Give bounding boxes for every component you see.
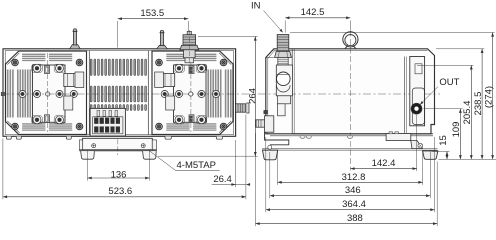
- svg-text:388: 388: [347, 213, 363, 224]
- svg-text:523.6: 523.6: [108, 186, 132, 197]
- svg-text:238.5: 238.5: [473, 92, 484, 116]
- svg-text:136: 136: [111, 169, 127, 180]
- svg-text:IN: IN: [251, 1, 261, 12]
- svg-text:264: 264: [247, 88, 258, 104]
- svg-text:142.4: 142.4: [372, 158, 396, 169]
- svg-text:346: 346: [345, 185, 361, 196]
- svg-text:142.5: 142.5: [301, 7, 325, 18]
- svg-text:26.4: 26.4: [213, 174, 232, 185]
- svg-text:15: 15: [438, 135, 449, 146]
- svg-text:(274): (274): [483, 86, 494, 108]
- svg-text:153.5: 153.5: [140, 8, 164, 19]
- svg-text:OUT: OUT: [439, 77, 459, 88]
- svg-text:205.4: 205.4: [462, 101, 473, 125]
- svg-text:109: 109: [451, 122, 462, 138]
- svg-text:364.4: 364.4: [342, 199, 366, 210]
- svg-text:312.8: 312.8: [342, 172, 366, 183]
- svg-text:4-M5TAP: 4-M5TAP: [177, 160, 216, 171]
